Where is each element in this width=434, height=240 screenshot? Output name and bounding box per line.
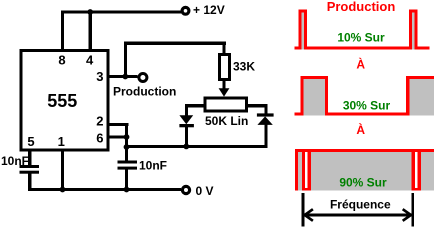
potentiometer RV1 body — [205, 98, 247, 111]
waveform 1 pulse 1 grey fill — [302, 13, 305, 50]
waveform 1 pulse 2 grey fill — [412, 13, 414, 50]
wire pot left lead — [185, 104, 205, 107]
wire D2 anode to node — [264, 124, 267, 148]
op-amp U1 555 timer body — [21, 51, 108, 151]
frequency arrowheads — [305, 209, 411, 221]
junction dot pin3 — [122, 74, 128, 80]
svg-text:555: 555 — [47, 91, 77, 111]
wire pin 2 — [108, 123, 128, 126]
svg-text:10% Sur: 10% Sur — [337, 30, 385, 44]
wire C1 bottom lead — [28, 174, 31, 192]
svg-text:1: 1 — [58, 134, 65, 149]
svg-text:4: 4 — [86, 53, 94, 68]
wire pin 3 output — [108, 75, 138, 78]
svg-text:5: 5 — [27, 134, 34, 149]
waveform 1 pulse 2 red outline — [409, 10, 418, 50]
waveform 3 red left edge — [295, 149, 298, 191]
wire ground rail — [28, 188, 181, 191]
waveform 3 grey body (90% duty) — [298, 152, 434, 190]
resistor R1 33K — [220, 55, 230, 80]
wire C2 top lead — [125, 147, 128, 161]
wire 33K bottom to wiper — [222, 80, 225, 90]
svg-text:90% Sur: 90% Sur — [339, 175, 387, 189]
wire C2 bottom lead — [125, 170, 128, 189]
terminal 0V — [182, 186, 189, 193]
svg-text:8: 8 — [58, 53, 65, 68]
wire V+ top rail — [61, 11, 182, 14]
svg-text:10nF: 10nF — [1, 154, 29, 168]
wire pot right lead — [246, 104, 268, 107]
svg-text:2: 2 — [96, 113, 103, 128]
wire pin 1 to ground — [61, 150, 64, 191]
wire pins 2-6 vertical tie — [125, 123, 128, 148]
diode D2 (cathode up, anode down) — [257, 113, 274, 125]
junction dot C2/ground — [124, 187, 130, 193]
svg-text:+ 12V: + 12V — [193, 3, 225, 17]
waveform 2 pulse 1 red outline — [300, 76, 328, 116]
junction dot pin1/ground — [60, 187, 66, 193]
junction dot pin4/rail — [87, 9, 93, 15]
waveform 2 baseline (30% duty) — [295, 112, 407, 115]
svg-text:6: 6 — [96, 130, 103, 145]
frequency left tick — [302, 193, 305, 227]
waveform 2 pulse 2 grey fill — [409, 79, 434, 115]
frequency arrow line — [304, 214, 411, 217]
wire node to 33K top — [124, 42, 226, 45]
waveform 3 notch 2 — [412, 152, 421, 190]
svg-text:10nF: 10nF — [139, 158, 167, 172]
wire pot right down to D2 — [264, 104, 267, 114]
junction dot node/C2 — [124, 144, 130, 150]
wire D1 cathode to node — [185, 127, 188, 148]
waveform 2 pulse 2 red outline — [406, 76, 434, 116]
diode D1 (anode up, cathode down) — [179, 115, 194, 127]
junction dot pin6 tie — [124, 134, 130, 140]
waveform 1 pulse 1 red outline — [299, 10, 308, 50]
wire 33K top lead — [222, 44, 225, 55]
wire pin 6 — [108, 136, 128, 139]
terminal +12V — [182, 7, 189, 14]
svg-text:50K Lin: 50K Lin — [205, 114, 248, 128]
wire pin 4 to rail — [89, 11, 92, 52]
terminal Production output — [139, 74, 147, 82]
waveform 2 pulse 1 grey fill — [304, 79, 325, 115]
wiper arrow of potentiometer — [219, 88, 230, 96]
capacitor C2 10nF plates — [118, 161, 138, 170]
waveform 1 baseline (10% duty) — [295, 47, 430, 50]
waveform 3 red top line — [295, 149, 434, 152]
waveform 3 notch 1 — [302, 152, 311, 190]
junction dot D1/node — [183, 144, 189, 150]
capacitor C1 10nF plates — [20, 165, 40, 174]
svg-text:Production: Production — [327, 0, 396, 14]
svg-text:Fréquence: Fréquence — [330, 198, 391, 212]
svg-text:30% Sur: 30% Sur — [343, 98, 391, 112]
svg-text:33K: 33K — [233, 60, 255, 74]
wire pin 8 to rail — [61, 11, 64, 52]
svg-text:3: 3 — [96, 69, 103, 84]
svg-text:À: À — [356, 122, 365, 137]
svg-text:Production: Production — [113, 85, 176, 99]
wire pin 5 lead — [28, 150, 31, 166]
svg-text:0 V: 0 V — [196, 184, 214, 198]
wire pot left down to D1 — [185, 104, 188, 116]
frequency right tick — [411, 193, 414, 227]
wire pin3 node up to RC wire — [124, 42, 127, 78]
svg-text:À: À — [356, 57, 365, 72]
wire threshold node horizontal — [125, 145, 268, 148]
